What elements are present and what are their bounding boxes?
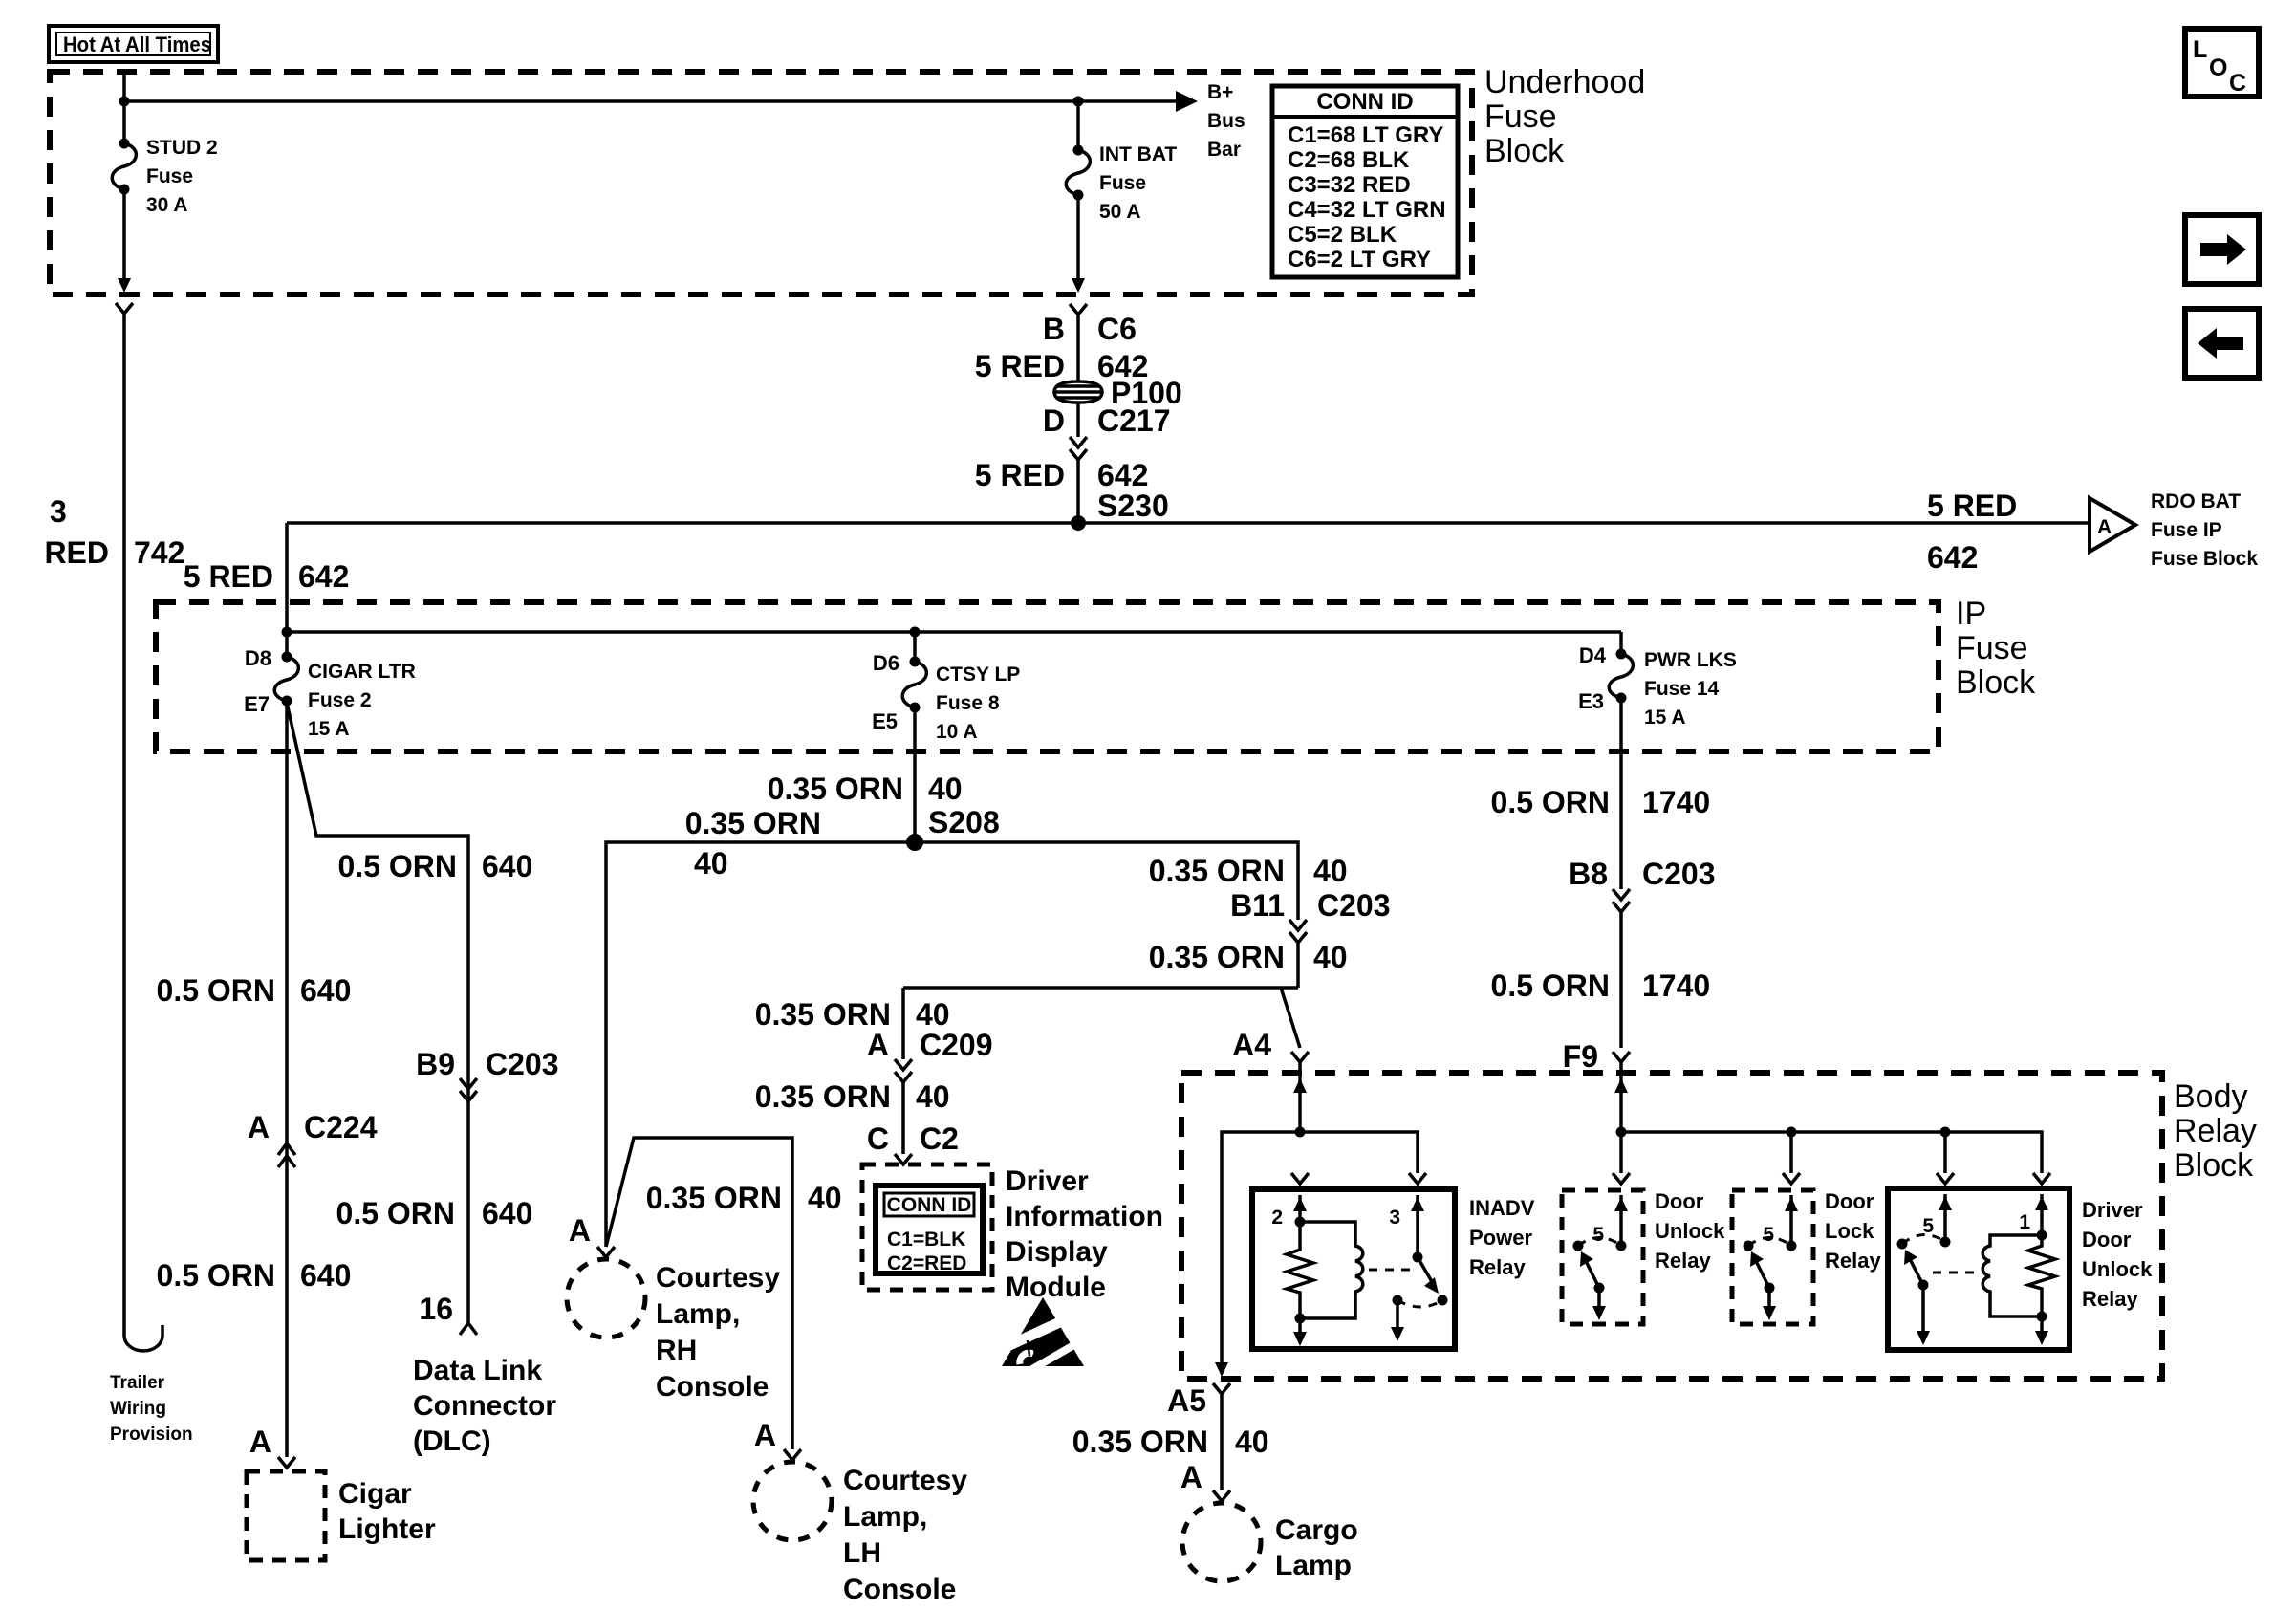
terminal A courtesy lamp RH (597, 1247, 615, 1257)
svg-text:0.35 ORN: 0.35 ORN (768, 772, 903, 806)
svg-text:C203: C203 (486, 1047, 559, 1081)
wire STUD2 fuse to block edge (122, 189, 126, 280)
svg-text:C5=2 BLK: C5=2 BLK (1288, 222, 1397, 248)
svg-text:0.35 ORN: 0.35 ORN (1072, 1425, 1208, 1459)
svg-text:Relay: Relay (2082, 1287, 2138, 1311)
terminal A cigar lighter (278, 1457, 295, 1468)
svg-text:5 RED: 5 RED (184, 559, 273, 594)
label STUD 2 Fuse 30 A (146, 137, 218, 216)
svg-text:742: 742 (134, 535, 184, 570)
node junction at B+ bus tap (119, 97, 130, 107)
svg-text:0.5 ORN: 0.5 ORN (336, 1196, 455, 1230)
label A | C209 (867, 1028, 993, 1062)
grommet P100 (1054, 381, 1102, 402)
svg-text:Lamp,: Lamp, (843, 1501, 927, 1533)
svg-text:A: A (248, 1110, 270, 1144)
svg-text:Display: Display (1006, 1236, 1108, 1268)
wire S230 bus to RDO BAT (287, 521, 2090, 525)
svg-text:Relay: Relay (1469, 1255, 1526, 1279)
pin 5 lead (1789, 1195, 1793, 1246)
svg-text:Data Link: Data Link (413, 1355, 542, 1386)
svg-text:C4=32 LT GRN: C4=32 LT GRN (1288, 197, 1446, 223)
svg-text:5: 5 (1763, 1224, 1774, 1246)
svg-text:Body: Body (2174, 1078, 2248, 1115)
node bus A4 (1295, 1127, 1306, 1138)
svg-text:0.35 ORN: 0.35 ORN (1149, 854, 1285, 888)
wire bus to door lock relay (1789, 1132, 1793, 1173)
lamp Cargo Lamp (1182, 1503, 1261, 1581)
svg-text:STUD 2: STUD 2 (146, 137, 218, 159)
svg-text:B+: B+ (1207, 81, 1233, 103)
label Body Relay Block (2174, 1078, 2257, 1184)
relay box Door Unlock Relay dashed (1562, 1190, 1643, 1324)
svg-text:E5: E5 (872, 709, 898, 733)
wire from Hot At All Times into fuse block (122, 72, 126, 143)
svg-text:A: A (249, 1425, 271, 1459)
wire S208 to C203 B11 (915, 842, 1298, 920)
svg-text:Provision: Provision (110, 1425, 193, 1445)
wire 5 RED 642 (C6 to P100) (1076, 315, 1080, 381)
svg-text:CTSY LP: CTSY LP (936, 664, 1020, 685)
node moving contact (1616, 1241, 1627, 1251)
svg-text:Relay: Relay (2174, 1113, 2257, 1149)
svg-text:Block: Block (1484, 133, 1565, 169)
nav arrow right box (2185, 215, 2259, 284)
svg-text:642: 642 (1097, 458, 1148, 492)
node pin3 switch pivot (1413, 1252, 1423, 1263)
svg-text:Fuse 14: Fuse 14 (1644, 678, 1720, 700)
svg-text:C6: C6 (1097, 312, 1137, 346)
label IP Fuse Block (1956, 596, 2036, 701)
svg-text:Relay: Relay (1655, 1249, 1711, 1273)
fuse CIGAR LTR Fuse 2 (274, 652, 298, 707)
connector C217 pin D (1070, 437, 1087, 460)
node switch contact (1438, 1295, 1448, 1306)
svg-text:C1=BLK: C1=BLK (887, 1229, 965, 1251)
label 0.35 ORN 40 (755, 997, 950, 1032)
label 5 RED 642 (975, 349, 1149, 383)
svg-text:Door: Door (2082, 1228, 2132, 1251)
svg-text:PWR LKS: PWR LKS (1644, 649, 1737, 671)
relay box Door Lock Relay dashed (1732, 1190, 1813, 1324)
svg-text:RED: RED (44, 535, 109, 570)
svg-text:C6=2 LT GRY: C6=2 LT GRY (1288, 247, 1431, 272)
svg-text:A: A (569, 1213, 591, 1248)
pin 1 lead (2040, 1194, 2044, 1235)
label Data Link Connector (DLC) (413, 1355, 556, 1457)
label B8 | C203 (1569, 857, 1715, 891)
svg-text:C: C (867, 1121, 889, 1156)
connector door unlock relay pin 5 (1613, 1173, 1630, 1184)
svg-text:C217: C217 (1097, 403, 1171, 438)
svg-text:B8: B8 (1569, 857, 1608, 891)
pin 2 lead (1298, 1195, 1302, 1222)
svg-text:Relay: Relay (1825, 1249, 1881, 1273)
svg-text:Driver: Driver (2082, 1198, 2143, 1222)
wire bus to D8 (285, 632, 289, 657)
svg-text:C224: C224 (304, 1110, 378, 1144)
label CIGAR LTR Fuse 2 15 A (308, 661, 416, 740)
svg-text:IP: IP (1956, 596, 1986, 632)
wire IP bus (287, 630, 1621, 634)
svg-text:40: 40 (808, 1181, 842, 1215)
label D8 / E7 (244, 646, 271, 716)
svg-text:0.5 ORN: 0.5 ORN (1491, 968, 1610, 1003)
lamp Courtesy Lamp LH Console (753, 1462, 832, 1540)
svg-text:Wiring: Wiring (110, 1399, 166, 1419)
wire to DIDM C209 (903, 986, 1298, 990)
node fixed contact (1573, 1241, 1584, 1251)
label INADV Power Relay (1469, 1196, 1535, 1279)
node door lock tap (1787, 1127, 1797, 1138)
connector C203 pin B9 (460, 1078, 477, 1101)
svg-text:LH: LH (843, 1537, 881, 1569)
svg-text:Cigar: Cigar (338, 1478, 412, 1510)
pin 5 lead (1943, 1194, 1947, 1242)
svg-text:A4: A4 (1232, 1028, 1271, 1062)
wire bus F9 (1621, 1132, 2042, 1173)
svg-text:C203: C203 (1642, 857, 1716, 891)
connector C203 pin B8 (1613, 889, 1630, 912)
connector ID table DIDM (876, 1186, 983, 1274)
wire to INT BAT fuse (1076, 101, 1080, 150)
switch throw arc dashed (1902, 1234, 1945, 1244)
svg-text:0.5 ORN: 0.5 ORN (157, 973, 275, 1008)
node IP bus left (282, 627, 292, 638)
wire bus A4 (1222, 1132, 1418, 1363)
node junction INT BAT tap (1073, 97, 1084, 107)
relay box INADV Power Relay (1252, 1189, 1455, 1349)
svg-text:Unlock: Unlock (1655, 1219, 1725, 1243)
switch throw arc dashed (1578, 1238, 1621, 1247)
svg-text:0.35 ORN: 0.35 ORN (1149, 940, 1285, 974)
label 0.5 ORN 640 (338, 849, 533, 883)
svg-text:C3=32 RED: C3=32 RED (1288, 172, 1411, 198)
wire B+ bus bar (124, 99, 1182, 103)
svg-text:0.5 ORN: 0.5 ORN (157, 1258, 275, 1293)
label Door Unlock Relay (1655, 1189, 1725, 1273)
svg-text:C2=68 BLK: C2=68 BLK (1288, 147, 1410, 173)
label 0.5 ORN 640 (157, 973, 352, 1008)
svg-text:40: 40 (1313, 940, 1348, 974)
terminal A cargo lamp (1213, 1490, 1230, 1501)
svg-text:A: A (1180, 1460, 1202, 1494)
svg-text:40: 40 (694, 846, 728, 881)
wire A5 to cargo lamp (1220, 1394, 1224, 1490)
svg-text:C1=68 LT GRY: C1=68 LT GRY (1288, 122, 1443, 148)
switch throw arc dashed (1397, 1300, 1442, 1307)
svg-text:Cargo: Cargo (1275, 1514, 1358, 1546)
connector door lock relay pin 5 (1783, 1173, 1800, 1184)
svg-text:Lamp: Lamp (1275, 1550, 1352, 1581)
svg-text:CONN ID: CONN ID (887, 1194, 972, 1216)
label B | C6 (1043, 312, 1137, 346)
pin 3 lead (1416, 1195, 1419, 1257)
label 3 RED 742 (44, 494, 184, 570)
label D4 / E3 (1578, 643, 1607, 713)
svg-text:640: 640 (482, 1196, 532, 1230)
svg-text:0.5 ORN: 0.5 ORN (1491, 785, 1610, 819)
label C | C2 (867, 1121, 959, 1156)
svg-text:F9: F9 (1563, 1039, 1598, 1074)
switch throw arc dashed (1748, 1238, 1791, 1247)
svg-text:C209: C209 (920, 1028, 993, 1062)
splice S230 (1071, 515, 1086, 531)
label 0.35 ORN 40 (1072, 1425, 1269, 1459)
connector triangle A to RDO BAT (2090, 498, 2135, 552)
wire E5 to S208 (913, 707, 917, 842)
label Courtesy Lamp RH Console (656, 1262, 780, 1403)
svg-text:E7: E7 (244, 692, 270, 716)
svg-text:Fuse: Fuse (1484, 98, 1557, 135)
svg-text:5 RED: 5 RED (975, 349, 1065, 383)
label Courtesy Lamp LH Console (843, 1465, 967, 1605)
svg-text:Courtesy: Courtesy (843, 1465, 967, 1496)
svg-text:S208: S208 (928, 805, 1000, 839)
ESD sensitivity symbol (1002, 1297, 1084, 1369)
nav arrow left box (2185, 309, 2259, 378)
node moving contact (1787, 1241, 1797, 1251)
label 0.35 ORN / 40 (685, 806, 821, 881)
svg-text:Lighter: Lighter (338, 1513, 436, 1545)
resistor INADV coil-suppression (1287, 1222, 1313, 1318)
IP Fuse Block dashed box (156, 602, 1939, 751)
svg-text:40: 40 (928, 772, 963, 806)
svg-text:40: 40 (916, 997, 950, 1032)
label B9 | C203 (416, 1047, 558, 1081)
connector A5 body relay block (1213, 1383, 1230, 1394)
label Trailer Wiring Provision (110, 1373, 193, 1445)
label RDO BAT Fuse IP Fuse Block (2151, 490, 2258, 570)
svg-text:2: 2 (1271, 1207, 1283, 1229)
label 0.5 ORN 640 (157, 1258, 352, 1293)
connector F9 body relay block (1613, 1052, 1630, 1062)
svg-text:Bus: Bus (1207, 110, 1245, 132)
label 0.35 ORN 40 (1149, 854, 1348, 888)
wire switch actuation dashed (1369, 1269, 1411, 1272)
connector C203 pin B11 (1289, 920, 1307, 943)
wire bus corner down to D4 (1619, 632, 1623, 654)
switch arm INADV (1418, 1257, 1434, 1285)
wire diagonal to A4 (1281, 988, 1300, 1048)
label D | C217 (1043, 403, 1171, 438)
svg-text:0.35 ORN: 0.35 ORN (685, 806, 821, 840)
svg-text:Block: Block (2174, 1147, 2254, 1184)
connector INADV pin 2 (1291, 1173, 1309, 1184)
connector C224 pin A (278, 1143, 295, 1167)
svg-text:50 A: 50 A (1099, 201, 1141, 223)
wire C203 to junction with C209 line (1296, 943, 1300, 988)
svg-text:RDO BAT: RDO BAT (2151, 490, 2241, 512)
wire A4 into body relay block (1298, 1062, 1302, 1132)
svg-text:A: A (867, 1028, 889, 1062)
svg-text:40: 40 (916, 1079, 950, 1114)
wire actuation dashed (1933, 1272, 1975, 1274)
inductor INADV relay coil (1300, 1222, 1363, 1318)
svg-text:B: B (1043, 312, 1065, 346)
label CTSY LP Fuse 8 10 A (936, 664, 1020, 743)
label 0.5 ORN 640 (336, 1196, 533, 1230)
svg-text:(DLC): (DLC) (413, 1425, 491, 1457)
label 0.35 ORN 40 (755, 1079, 950, 1114)
cigar lighter dashed box (247, 1471, 325, 1560)
svg-text:30 A: 30 A (146, 194, 188, 216)
svg-text:5 RED: 5 RED (1927, 489, 2017, 523)
Driver Information Display Module dashed box (862, 1164, 992, 1290)
connector C6 pin B (1070, 304, 1087, 315)
fuse INT BAT Fuse 50 A (1066, 145, 1090, 201)
svg-text:642: 642 (1927, 540, 1978, 575)
wire 5 RED 642 (C217 to S230) (1076, 460, 1080, 523)
label Driver Door Unlock Relay (2082, 1198, 2153, 1311)
connector trailer feed (116, 303, 133, 314)
label B+ Bus Bar (1207, 81, 1245, 161)
svg-text:40: 40 (1313, 854, 1348, 888)
label Driver Information Display Module (1006, 1165, 1163, 1303)
connector ID table Underhood (1272, 86, 1458, 277)
label INT BAT Fuse 50 A (1099, 143, 1177, 223)
wire common to box bottom (1396, 1300, 1399, 1329)
wire C217 (1076, 402, 1080, 437)
fuse CTSY LP Fuse 8 (902, 657, 926, 713)
node switch common (1765, 1283, 1775, 1294)
label A | C224 (248, 1110, 378, 1144)
label 0.35 ORN 40 (646, 1181, 842, 1215)
resistor DDU coil-suppression (2028, 1235, 2055, 1316)
node switch common (1918, 1280, 1929, 1291)
pin 5 lead (1619, 1195, 1623, 1246)
svg-text:Bar: Bar (1207, 139, 1241, 161)
svg-text:C203: C203 (1317, 888, 1391, 923)
svg-text:Information: Information (1006, 1201, 1163, 1232)
connector A4 body relay block (1291, 1052, 1309, 1062)
svg-text:640: 640 (300, 1258, 351, 1293)
wire E3 to F9 (1619, 698, 1623, 889)
switch arm (1756, 1261, 1769, 1288)
svg-text:D8: D8 (245, 646, 271, 670)
svg-text:B9: B9 (416, 1047, 455, 1081)
wire C203 to body relay block F9 (1619, 912, 1623, 1048)
node pin1 top (2037, 1230, 2047, 1241)
wire common to box bottom (1921, 1285, 1925, 1333)
terminal 16 DLC (460, 1323, 477, 1335)
svg-text:Driver: Driver (1006, 1165, 1089, 1197)
node pin2 (1295, 1217, 1306, 1228)
connector DDU relay pin 5 (1937, 1173, 1954, 1184)
svg-text:Door: Door (1825, 1189, 1874, 1213)
svg-text:40: 40 (1235, 1425, 1269, 1459)
connector DDU relay pin 1 (2033, 1173, 2050, 1184)
label Cargo Lamp (1275, 1514, 1358, 1581)
svg-text:3: 3 (50, 494, 67, 529)
node switch common (1594, 1283, 1605, 1294)
wire courtesy lamp RH to LH (606, 1138, 792, 1449)
wire S208 to courtesy lamp RH (606, 842, 915, 1247)
relay box Driver Door Unlock Relay (1888, 1188, 2069, 1350)
svg-text:Door: Door (1655, 1189, 1704, 1213)
svg-text:D: D (1043, 403, 1065, 438)
connector C2 pin C DIDM (895, 1154, 912, 1164)
svg-text:Lock: Lock (1825, 1219, 1874, 1243)
wire INT BAT fuse to block edge (1076, 195, 1080, 280)
inductor DDU relay coil (1982, 1235, 2042, 1316)
wire pin to box bottom (1298, 1318, 1302, 1335)
svg-text:0.35 ORN: 0.35 ORN (755, 1079, 891, 1114)
wire 3 RED 742 to trailer provision (124, 314, 162, 1351)
switch arm (1586, 1261, 1599, 1288)
wire to box bottom (2040, 1316, 2044, 1333)
node pin1 bottom (2037, 1312, 2047, 1322)
svg-text:Lamp,: Lamp, (656, 1298, 740, 1330)
Underhood Fuse Block dashed box (50, 72, 1472, 294)
svg-text:Power: Power (1469, 1226, 1532, 1250)
svg-text:0.5 ORN: 0.5 ORN (338, 849, 457, 883)
svg-text:CONN ID: CONN ID (1316, 89, 1413, 115)
label 0.5 ORN 1740 (1491, 785, 1711, 819)
svg-text:Console: Console (656, 1371, 769, 1403)
svg-text:5 RED: 5 RED (975, 458, 1065, 492)
svg-text:C2=RED: C2=RED (887, 1252, 966, 1274)
label 0.35 ORN 40 (1149, 940, 1348, 974)
svg-text:Underhood: Underhood (1484, 64, 1645, 100)
wire common to box bottom (1597, 1288, 1601, 1308)
svg-text:Fuse 8: Fuse 8 (936, 692, 1000, 714)
fuse PWR LKS Fuse 14 (1609, 649, 1633, 704)
node DDU pin5 tap (1940, 1127, 1951, 1138)
Body Relay Block dashed box (1181, 1073, 2162, 1379)
svg-text:10 A: 10 A (936, 721, 978, 743)
fuse STUD 2 Fuse 30 A (112, 139, 136, 195)
svg-text:642: 642 (298, 559, 349, 594)
svg-text:Fuse: Fuse (1956, 630, 2028, 666)
svg-text:S230: S230 (1097, 489, 1169, 523)
svg-text:1: 1 (2019, 1211, 2030, 1233)
wire C209 to DIDM (901, 1082, 905, 1154)
label box "Hot At All Times" (49, 26, 218, 62)
node IP bus CTSY tap (910, 627, 921, 638)
B+ bus bar arrow terminal (1176, 91, 1198, 112)
svg-text:1740: 1740 (1642, 785, 1710, 819)
svg-text:Connector: Connector (413, 1390, 556, 1422)
label B11 | C203 (1230, 888, 1390, 923)
connector INADV pin 3 (1409, 1173, 1426, 1184)
wire E7 to cigar lighter (285, 701, 289, 1457)
svg-text:3: 3 (1389, 1207, 1400, 1229)
svg-text:RH: RH (656, 1335, 697, 1366)
svg-text:Fuse 2: Fuse 2 (308, 689, 372, 711)
svg-text:Courtesy: Courtesy (656, 1262, 780, 1294)
svg-text:L: L (2193, 36, 2207, 63)
svg-text:16: 16 (419, 1292, 453, 1326)
svg-text:D4: D4 (1579, 643, 1607, 667)
svg-text:Hot At All Times: Hot At All Times (63, 33, 211, 56)
svg-text:Trailer: Trailer (110, 1373, 165, 1393)
wire C209 drop (901, 988, 905, 1059)
label 5 RED 642 (975, 458, 1149, 492)
svg-text:0.35 ORN: 0.35 ORN (646, 1181, 782, 1215)
node F9 (1616, 1127, 1627, 1138)
svg-text:Console: Console (843, 1574, 956, 1605)
svg-text:15 A: 15 A (308, 718, 350, 740)
label Underhood Fuse Block (1484, 64, 1645, 169)
wire F9 to door unlock relay (1619, 1132, 1623, 1173)
svg-text:Fuse: Fuse (146, 165, 193, 187)
label Cigar Lighter (338, 1478, 436, 1545)
label 0.5 ORN 1740 (1491, 968, 1711, 1003)
label 5 RED / 642 right (1927, 489, 2017, 575)
svg-text:A: A (754, 1418, 776, 1452)
svg-text:C: C (2229, 70, 2246, 97)
